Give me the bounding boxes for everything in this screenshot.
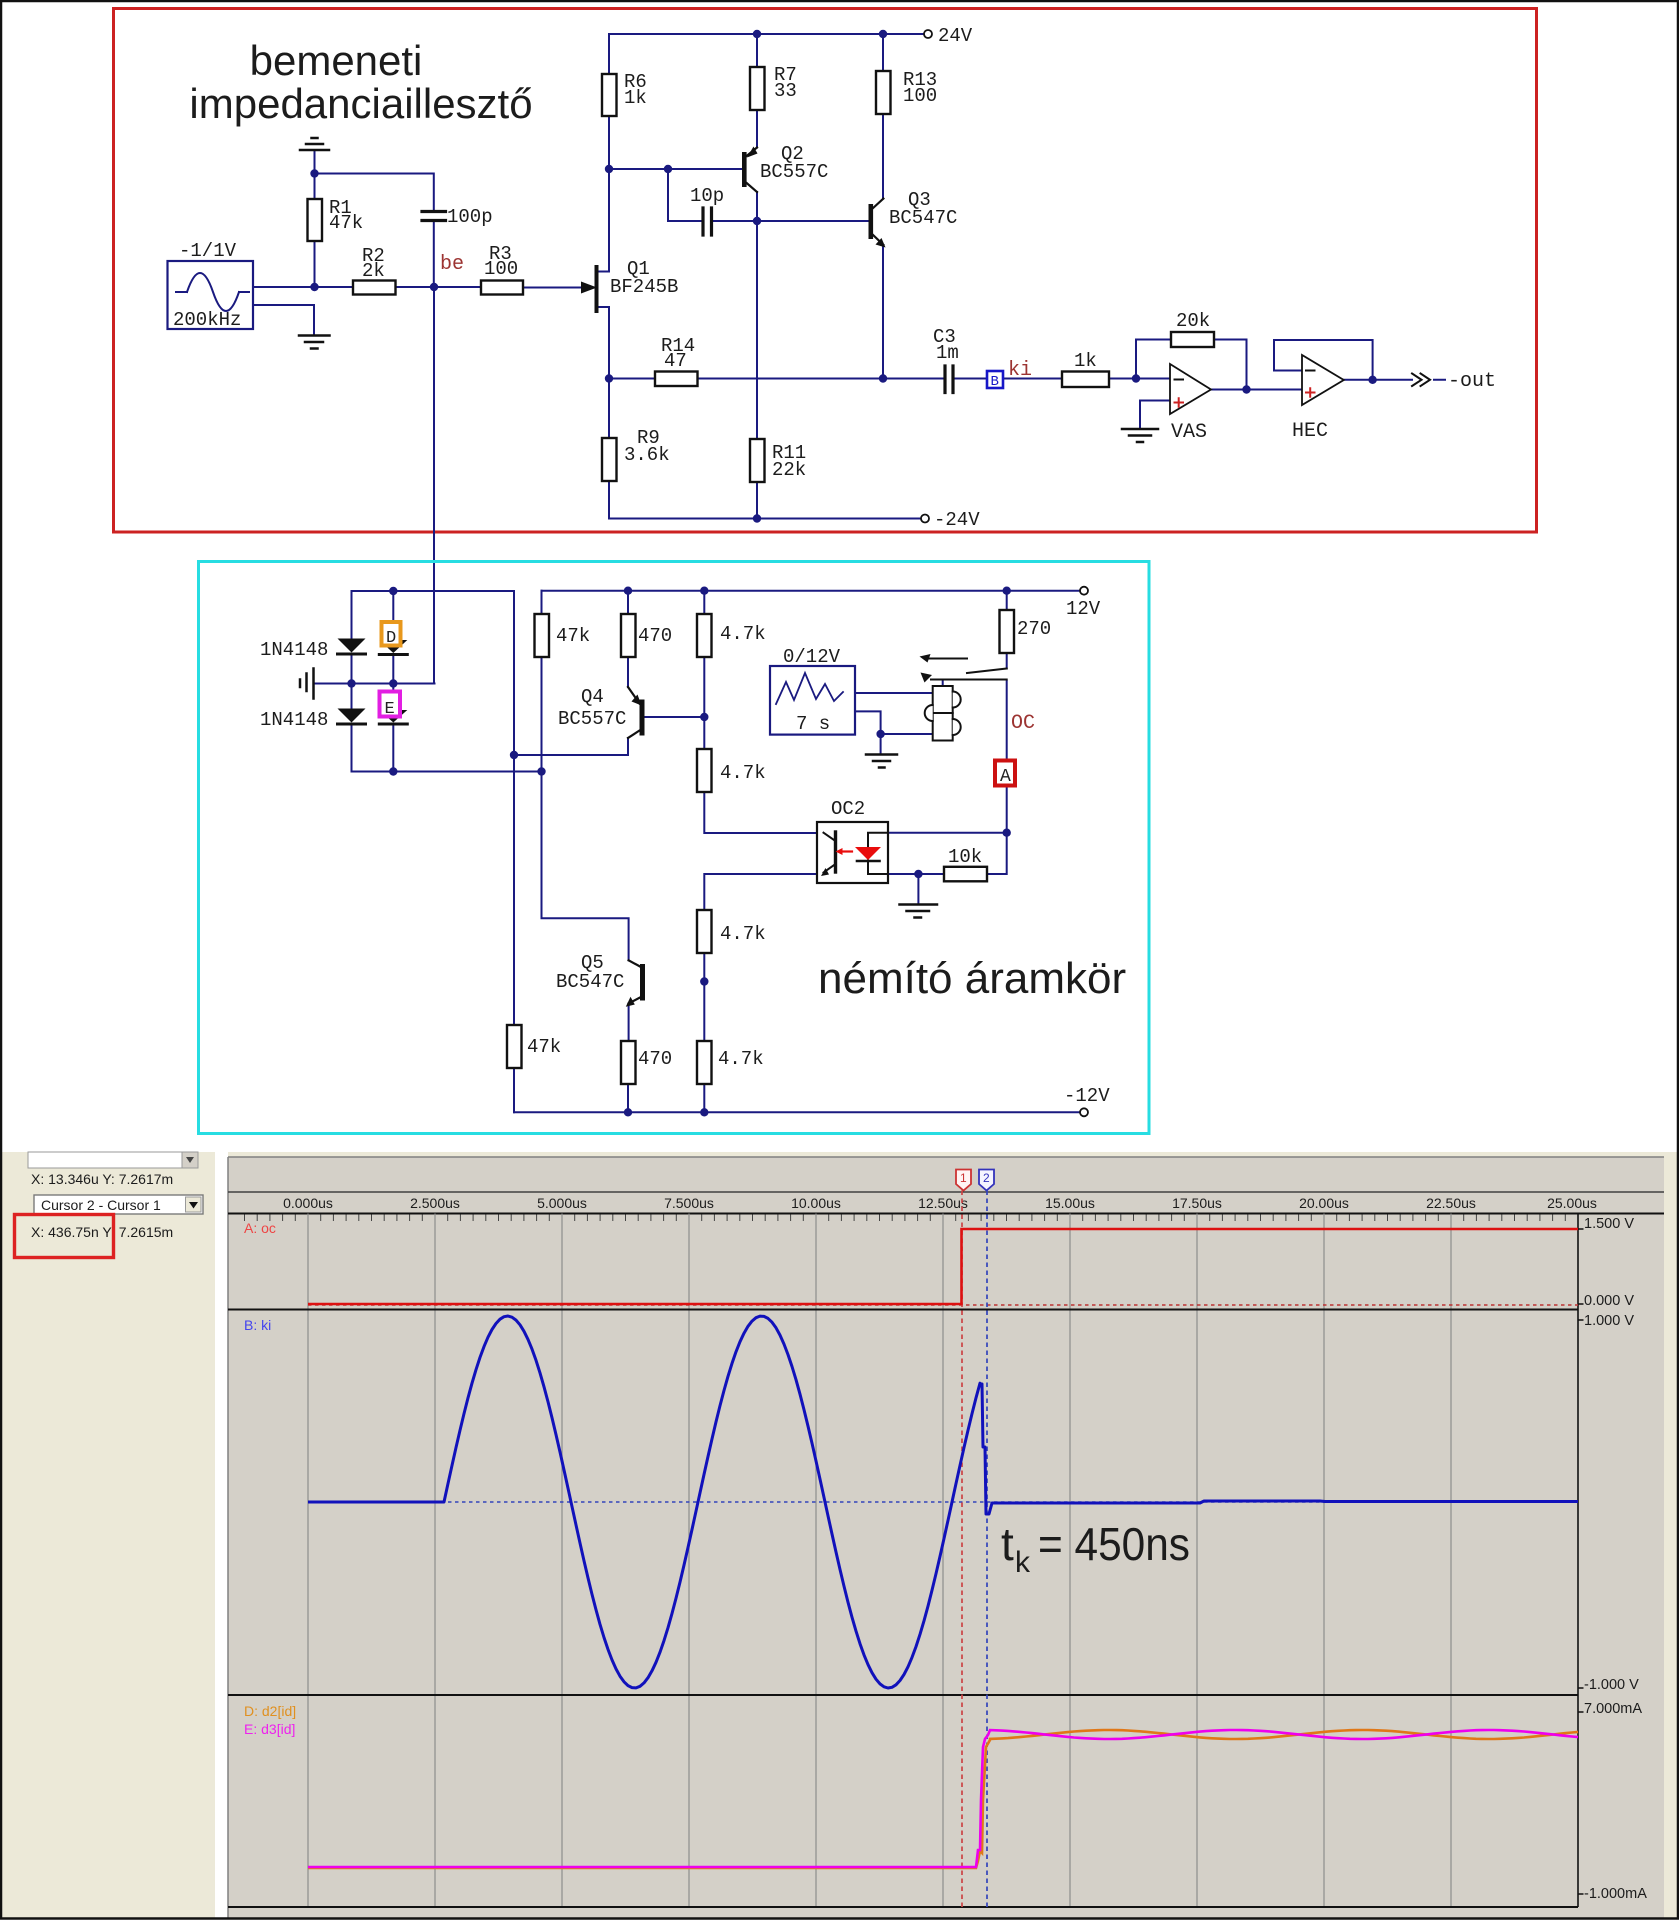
wire HEC output xyxy=(1344,379,1445,381)
svg-text:E: d3[id]: E: d3[id] xyxy=(244,1721,295,1737)
svg-text:20.00us: 20.00us xyxy=(1299,1195,1349,1211)
wire Q4 collector to 47k(load) xyxy=(514,738,628,755)
wire R7 top xyxy=(756,34,758,67)
wire probe B to 1k xyxy=(1003,378,1062,380)
probe A (voltage pin) xyxy=(995,761,1015,788)
svg-text:A: A xyxy=(1000,767,1011,787)
svg-text:BC547C: BC547C xyxy=(556,971,624,993)
resistor R11 22k xyxy=(750,439,806,482)
svg-text:24V: 24V xyxy=(938,25,973,47)
wire R11 bottom to -24V rail xyxy=(756,482,758,519)
wire 470(Q5) bottom to -12V rail xyxy=(627,1084,629,1112)
ground at OC2 emitter xyxy=(900,905,938,918)
transistor Q5 BC547C (NPN mirrored) xyxy=(556,952,645,1007)
svg-text:X: 13.346u Y: 7.2617m: X: 13.346u Y: 7.2617m xyxy=(31,1171,173,1187)
wire diode right branch xyxy=(392,591,394,772)
svg-text:47: 47 xyxy=(664,350,687,372)
left panel: combobox Cursor 2 - Cursor 1 xyxy=(34,1195,203,1214)
wire VAS output to HEC xyxy=(1211,389,1302,391)
svg-text:-24V: -24V xyxy=(934,509,980,531)
svg-text:0/12V: 0/12V xyxy=(783,646,841,668)
resistor 1k (VAS input) xyxy=(1062,350,1109,387)
wire net be vertical to muting circuit xyxy=(433,287,435,684)
svg-text:D: D xyxy=(386,629,396,648)
wire OC2 emitter ground stub xyxy=(917,874,919,904)
wire 4.7k chain top xyxy=(703,591,705,749)
svg-text:470: 470 xyxy=(638,625,672,647)
svg-text:0.000us: 0.000us xyxy=(283,1195,333,1211)
vertical gridlines xyxy=(308,1214,1451,1908)
svg-text:1m: 1m xyxy=(936,342,959,364)
svg-text:270: 270 xyxy=(1017,618,1051,640)
wire source lower pin to ground xyxy=(253,305,314,335)
capacitor 10p xyxy=(690,185,724,235)
ground (left-rotated) at diode mid net xyxy=(300,669,314,699)
svg-text:t: t xyxy=(1001,1518,1014,1570)
terminal -24V xyxy=(921,509,980,531)
svg-text:7.000mA: 7.000mA xyxy=(1584,1701,1642,1717)
cursor marker flag 2 xyxy=(979,1170,994,1191)
relay / controlled switch coil xyxy=(925,686,961,741)
probe D (current arrow) xyxy=(382,622,401,648)
diode d2 (right top, measured) xyxy=(379,640,407,655)
cursor 2 dashed line (blue) xyxy=(986,1191,988,1908)
svg-text:12.50us: 12.50us xyxy=(918,1195,968,1211)
wire 100p bottom to be node xyxy=(433,221,435,287)
svg-text:100p: 100p xyxy=(447,206,493,228)
svg-text:47k: 47k xyxy=(329,212,363,234)
capacitor C3 1m xyxy=(933,326,959,393)
wire node OC to OC2 collector / 10k xyxy=(888,833,1007,874)
svg-text:470: 470 xyxy=(638,1048,672,1070)
simulation window background xyxy=(2,1152,1677,1918)
svg-text:Q4: Q4 xyxy=(581,686,604,708)
wire Q2 collector node down to R11 xyxy=(756,221,758,439)
svg-text:5.000us: 5.000us xyxy=(537,1195,587,1211)
resistor R2 2k xyxy=(353,245,396,295)
wire left column 24V to R6 xyxy=(608,34,610,74)
svg-text:ki: ki xyxy=(1008,359,1032,382)
svg-text:-out: -out xyxy=(1448,370,1496,393)
svg-text:2: 2 xyxy=(983,1171,990,1185)
wire R6 bottom to Q1 drain node xyxy=(608,116,610,169)
ground below 0/12V source xyxy=(866,755,897,768)
probe E (current arrow) xyxy=(380,692,401,720)
wire diode mid net with ground and be xyxy=(314,683,435,685)
source VG1 -1/1V 200kHz xyxy=(168,240,254,331)
wire 12V rail xyxy=(542,590,1081,592)
wire branch to 10p cap xyxy=(668,169,703,221)
cursor marker flag 1 xyxy=(956,1170,971,1191)
resistor 470 (Q4 emitter) xyxy=(621,614,672,657)
svg-text:20k: 20k xyxy=(1176,310,1210,332)
svg-text:1: 1 xyxy=(960,1171,967,1185)
ground at VAS + input xyxy=(1122,429,1158,442)
resistor 20k (VAS feedback) xyxy=(1171,310,1214,347)
svg-text:HEC: HEC xyxy=(1292,420,1328,443)
wire node to 100p top xyxy=(315,174,434,213)
probe B (voltage pin) xyxy=(987,371,1003,390)
ground (flipped) above R1 xyxy=(300,138,329,150)
svg-text:10k: 10k xyxy=(948,846,982,868)
svg-text:1.500 V: 1.500 V xyxy=(1584,1216,1634,1232)
resistor 10k xyxy=(944,846,987,881)
annotation frame: bemeneti impedanciaillesztő block (red) xyxy=(114,9,1537,533)
diode d3 (right bottom, measured) xyxy=(379,710,407,724)
svg-text:47k: 47k xyxy=(556,625,590,647)
terminal 12V xyxy=(1066,587,1101,620)
svg-text:B: B xyxy=(991,374,999,390)
terminal -12V xyxy=(1064,1085,1110,1116)
svg-text:22.50us: 22.50us xyxy=(1426,1195,1476,1211)
resistor 4.7k (chain 3) xyxy=(697,910,766,953)
resistor 270 xyxy=(1000,610,1052,653)
svg-text:OC2: OC2 xyxy=(831,798,865,820)
resistor R9 3.6k xyxy=(602,427,670,481)
svg-text:X: 436.75n Y: 7.2615m: X: 436.75n Y: 7.2615m xyxy=(31,1224,173,1240)
wire 1k to VAS inverting input xyxy=(1109,378,1170,380)
wire R13 top xyxy=(882,34,884,71)
svg-text:impedanciaillesztő: impedanciaillesztő xyxy=(189,80,532,127)
wire R2 to be node xyxy=(396,286,435,288)
svg-text:4.7k: 4.7k xyxy=(720,623,766,645)
wire HEC feedback xyxy=(1274,340,1373,380)
wire diode bottom net xyxy=(352,771,542,773)
wire 47k(bias) top to rail xyxy=(541,591,543,614)
plot header line xyxy=(228,1191,1664,1193)
svg-text:1N4148: 1N4148 xyxy=(260,639,328,661)
red highlight rectangle xyxy=(15,1215,114,1258)
dashed baseline (ki) xyxy=(308,1501,1578,1503)
wire Q1 source to R14 node xyxy=(597,307,609,379)
switch SW (SPDT lever) xyxy=(929,659,1007,680)
wire source output to node xyxy=(253,286,315,288)
wire top ground to R1 top node xyxy=(314,150,316,174)
svg-text:10.00us: 10.00us xyxy=(791,1195,841,1211)
svg-text:1.000 V: 1.000 V xyxy=(1584,1313,1634,1329)
svg-text:7 s: 7 s xyxy=(796,713,830,735)
wire C3 node to C3 xyxy=(883,378,945,380)
output chevrons and -out xyxy=(1412,370,1496,393)
transistor Q4 BC557C (PNP mirrored) xyxy=(558,686,645,738)
svg-text:33: 33 xyxy=(774,80,797,102)
resistor 47k (diode bias) xyxy=(535,614,591,657)
wire Q4 base to 4.7k node xyxy=(645,716,705,718)
svg-text:12V: 12V xyxy=(1066,598,1101,620)
transistor Q1 BF245B (JFET) xyxy=(581,258,678,311)
svg-text:7.500us: 7.500us xyxy=(664,1195,714,1211)
wire -12V rail xyxy=(514,1111,1080,1113)
svg-text:200kHz: 200kHz xyxy=(173,309,241,331)
svg-text:0.000 V: 0.000 V xyxy=(1584,1293,1634,1309)
op-amp HEC xyxy=(1292,355,1344,443)
svg-text:1k: 1k xyxy=(624,87,647,109)
svg-text:BC557C: BC557C xyxy=(558,708,626,730)
svg-text:BF245B: BF245B xyxy=(610,276,678,298)
wire relay top to switch throw xyxy=(942,680,944,687)
trace E: d3[id] (magenta) xyxy=(308,1730,1578,1867)
svg-text:D: d2[id]: D: d2[id] xyxy=(244,1703,296,1719)
wire R9 top xyxy=(608,379,610,439)
wire Q2 collector to node xyxy=(756,192,758,221)
resistor R13 100 xyxy=(876,69,937,114)
trace A: oc (red) xyxy=(308,1229,1578,1304)
resistor 47k (Q4 load) xyxy=(507,1025,561,1068)
wire 4.7k4 bottom to -12V rail xyxy=(703,1084,705,1112)
svg-text:BC557C: BC557C xyxy=(760,161,828,183)
wire -24V rail xyxy=(609,518,921,520)
svg-text:A: oc: A: oc xyxy=(244,1220,276,1236)
wire source 0/12V pin2 to ground and relay xyxy=(855,711,933,753)
diode D3 1N4148 (left bottom) xyxy=(260,709,366,732)
wire +24V rail xyxy=(609,33,925,35)
resistor 470 (Q5 emitter) xyxy=(621,1041,672,1084)
svg-text:25.00us: 25.00us xyxy=(1547,1195,1597,1211)
resistor R6 1k xyxy=(602,71,647,116)
svg-text:be: be xyxy=(440,253,464,276)
svg-text:k: k xyxy=(1015,1546,1031,1579)
wire 47k(load) column from Q4 collector to bottom rail xyxy=(513,591,515,1112)
wire diode network top xyxy=(352,590,515,592)
svg-text:VAS: VAS xyxy=(1171,421,1207,444)
wire 470(Q4) bottom to Q4 emitter xyxy=(627,657,629,687)
dashed zero line (oc) xyxy=(308,1304,1578,1306)
svg-text:3.6k: 3.6k xyxy=(624,444,670,466)
wire source 0/12V pin1 to relay xyxy=(855,692,933,694)
wire R3 to Q1 gate xyxy=(523,287,581,289)
resistor R7 33 xyxy=(750,64,797,110)
resistor R14 47 xyxy=(655,335,698,386)
svg-text:47k: 47k xyxy=(527,1036,561,1058)
wire 270 bottom to switch pivot xyxy=(1006,653,1008,669)
wire R9 bottom to -24V rail xyxy=(608,481,610,519)
left panel: partial combo box at top xyxy=(28,1152,182,1168)
trace B: ki (blue) xyxy=(308,1316,1578,1688)
svg-text:100: 100 xyxy=(903,85,937,107)
ground below source xyxy=(299,336,330,349)
svg-text:Cursor 2 - Cursor 1: Cursor 2 - Cursor 1 xyxy=(41,1197,161,1213)
capacitor 100p xyxy=(422,206,493,228)
svg-text:BC547C: BC547C xyxy=(889,207,957,229)
svg-text:bemeneti: bemeneti xyxy=(250,37,423,84)
wire node to R2 xyxy=(315,286,354,288)
wire diode bottom net to Q5 collector xyxy=(542,772,629,961)
wire VAS feedback via 20k xyxy=(1136,340,1247,390)
svg-text:1N4148: 1N4148 xyxy=(260,709,328,731)
svg-text:= 450ns: = 450ns xyxy=(1038,1518,1190,1570)
optocoupler OC2 xyxy=(817,798,888,883)
svg-text:10p: 10p xyxy=(690,185,724,207)
svg-text:némító áramkör: némító áramkör xyxy=(818,954,1126,1003)
svg-text:22k: 22k xyxy=(772,459,806,481)
svg-text:E: E xyxy=(385,700,395,719)
wire R14 right to C3 node xyxy=(698,378,884,380)
svg-text:15.00us: 15.00us xyxy=(1045,1195,1095,1211)
resistor 4.7k (chain 2) xyxy=(697,749,766,792)
wire switch lower throw to node OC vertical xyxy=(1006,681,1008,833)
resistor 4.7k (chain 1) xyxy=(697,614,766,657)
wire be node to R3 xyxy=(434,286,481,288)
source VG2 0/12V 7s xyxy=(770,646,855,735)
wire R7 bottom to Q2 emitter xyxy=(756,110,758,148)
wire OC2 LED bottom to 4.7k3 xyxy=(704,874,817,910)
svg-text:2k: 2k xyxy=(362,260,385,282)
resistor 4.7k (chain 4) xyxy=(697,1041,764,1084)
resistor R1 47k xyxy=(308,197,364,241)
wire Q5 emitter to 470 xyxy=(628,1004,630,1042)
svg-text:-12V: -12V xyxy=(1064,1085,1110,1107)
svg-text:4.7k: 4.7k xyxy=(720,762,766,784)
wire 47k(bias) bottom to diode bottom net xyxy=(541,657,543,772)
resistor R3 100 xyxy=(481,243,523,295)
diode D2 1N4148 (left top) xyxy=(260,639,366,662)
wire C3 to probe B xyxy=(953,378,987,380)
cursor 1 dashed line (red) xyxy=(961,1191,963,1908)
svg-text:OC: OC xyxy=(1011,712,1035,735)
wire R1 xyxy=(314,174,316,288)
svg-text:2.500us: 2.500us xyxy=(410,1195,460,1211)
terminal 24V xyxy=(924,25,973,47)
annotation frame: némító áramkör block (cyan) xyxy=(199,562,1150,1134)
wire 470(Q4) top to rail xyxy=(627,591,629,614)
junction dots top schematic xyxy=(753,30,761,38)
wire Q3 emitter down to C3 node xyxy=(882,245,884,379)
svg-text:B: ki: B: ki xyxy=(244,1317,271,1333)
svg-text:100: 100 xyxy=(484,258,518,280)
wire 10p cap to Q3 base xyxy=(712,220,869,222)
wire node R14 left xyxy=(609,378,655,380)
transistor Q3 BC547C xyxy=(869,189,958,248)
svg-text:-1/1V: -1/1V xyxy=(179,240,237,262)
wire Q1 drain xyxy=(597,169,609,272)
wire Q5 base node to 4.7k4 xyxy=(703,982,705,1042)
junction dots muting circuit xyxy=(624,587,632,595)
svg-text:-1.000mA: -1.000mA xyxy=(1584,1886,1647,1902)
op-amp VAS xyxy=(1170,364,1211,444)
wire R13 bottom to Q3 collector xyxy=(882,114,884,199)
svg-text:1k: 1k xyxy=(1074,350,1097,372)
wire VAS + input to ground xyxy=(1140,401,1170,429)
svg-text:4.7k: 4.7k xyxy=(718,1048,764,1070)
trace D: d2[id] (orange) xyxy=(308,1730,1578,1868)
transistor Q2 BC557C xyxy=(742,143,828,192)
wire node Q1 drain to Q2 base xyxy=(609,168,742,170)
svg-text:4.7k: 4.7k xyxy=(720,923,766,945)
time axis line and ticks xyxy=(228,1213,1664,1215)
subplot divider lines and right border xyxy=(228,1310,1578,1908)
wire 270 to rail xyxy=(1006,591,1008,610)
svg-text:17.50us: 17.50us xyxy=(1172,1195,1222,1211)
wire 4.7k3 bottom to Q5 base xyxy=(703,953,705,982)
wire 4.7k2 bottom to OC2 LED top xyxy=(704,792,817,833)
wire diode left branch xyxy=(351,591,353,772)
svg-text:-1.000 V: -1.000 V xyxy=(1584,1677,1639,1693)
